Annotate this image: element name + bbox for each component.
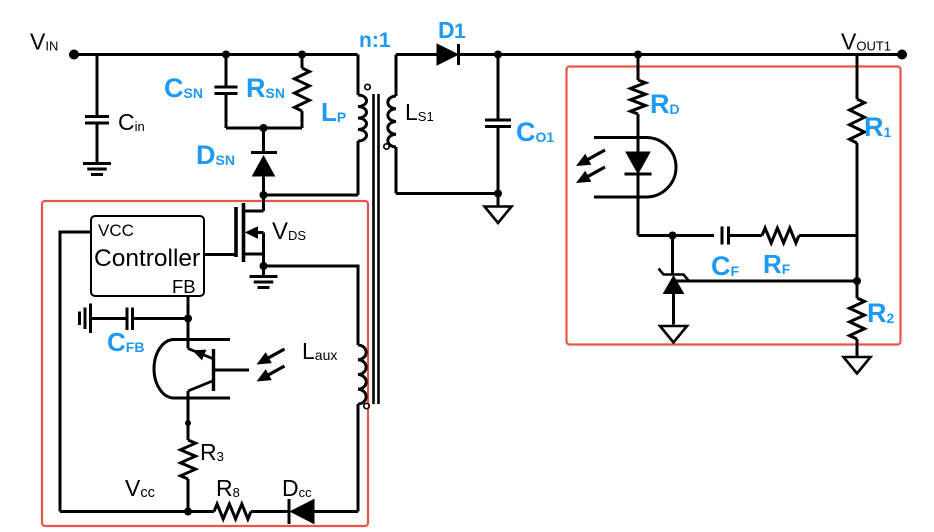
resistor RD (631, 55, 680, 153)
wire secondary bottom (396, 192, 498, 195)
LED light arrows (576, 150, 605, 183)
opto-coupler transistor package (154, 340, 230, 399)
ground sideways at CFB (80, 304, 91, 334)
wire FB pin down (187, 296, 190, 319)
transistor Q1 MOSFET (236, 195, 306, 266)
capacitor CSN (164, 55, 238, 129)
capacitor CFB (91, 308, 188, 358)
resistor RSN (246, 55, 310, 129)
wire source to aux winding (264, 266, 359, 345)
transistor Q2 photo-transistor (188, 349, 249, 441)
svg-text:FB: FB (172, 276, 196, 297)
resistor R8 (214, 475, 251, 519)
LED of opto-coupler (625, 152, 652, 236)
node CO1 top (494, 51, 502, 59)
wire drain to primary bottom (264, 194, 359, 197)
node primary phase dot (365, 84, 370, 89)
resistor R3 (181, 439, 224, 512)
node RD top (634, 51, 642, 59)
wire LED cathode to divider (638, 234, 857, 237)
node snubber top CSN (222, 51, 230, 59)
node snubber junction (260, 124, 268, 132)
svg-text:VCC: VCC (98, 221, 134, 240)
transformer core (374, 94, 379, 404)
ground below MOSFET source (250, 266, 278, 288)
node zener tap (669, 232, 677, 240)
svg-text:1: 1 (454, 20, 466, 43)
inductor Laux auxiliary winding (302, 338, 366, 512)
box feedback secondary network (567, 67, 901, 345)
node secondary ground junction (494, 190, 502, 198)
node stub on emitter wire (185, 420, 191, 426)
diode D1 (437, 17, 466, 65)
node FB junction (184, 315, 192, 323)
node divider mid (853, 277, 861, 285)
diode Dcc (282, 475, 358, 524)
resistor R2 (850, 281, 895, 357)
node Vcc junction (125, 475, 192, 516)
controller U1 (91, 216, 204, 297)
wire top rail from VIN to primary (74, 53, 358, 56)
resistor RF (762, 228, 799, 280)
wire reference to divider mid (674, 280, 858, 283)
wire gate drive (204, 253, 236, 256)
wire secondary top to D1 (396, 53, 437, 56)
resistor R1 (850, 55, 892, 282)
opto-coupler LED package (594, 138, 676, 198)
label n:1 (359, 29, 391, 52)
node VOUT1 terminal (841, 29, 907, 60)
node snubber top RSN (298, 51, 306, 59)
node drain junction (260, 191, 268, 199)
capacitor CO1 (485, 55, 554, 194)
capacitor CF (711, 227, 740, 282)
wire snubber bottom (226, 127, 302, 130)
inductor LS1 secondary winding (388, 55, 434, 194)
wire FB to photo-transistor (187, 319, 190, 349)
node source junction (260, 262, 268, 270)
node VIN terminal (30, 29, 79, 60)
wire output rail (459, 53, 903, 56)
box controller primary network (42, 201, 368, 526)
svg-text:n:1: n:1 (359, 29, 391, 52)
zener diode reference (659, 236, 689, 325)
capacitor Cin (85, 55, 145, 164)
ground below zener (660, 326, 687, 343)
ground below CO1 (485, 194, 512, 224)
svg-text:D: D (438, 17, 455, 43)
wire R8 to Dcc (251, 510, 289, 513)
node aux phase dot (364, 403, 369, 408)
ground below Cin (83, 164, 111, 175)
inductor LP primary winding (321, 55, 367, 196)
svg-text:Controller: Controller (94, 245, 200, 272)
node secondary phase dot (384, 144, 389, 149)
diode DSN (196, 128, 277, 195)
wire bottom rail left (60, 510, 214, 513)
ground below R2 (844, 357, 871, 374)
photo-transistor light arrows (257, 349, 285, 382)
wire VCC to bottom rail (60, 232, 91, 512)
